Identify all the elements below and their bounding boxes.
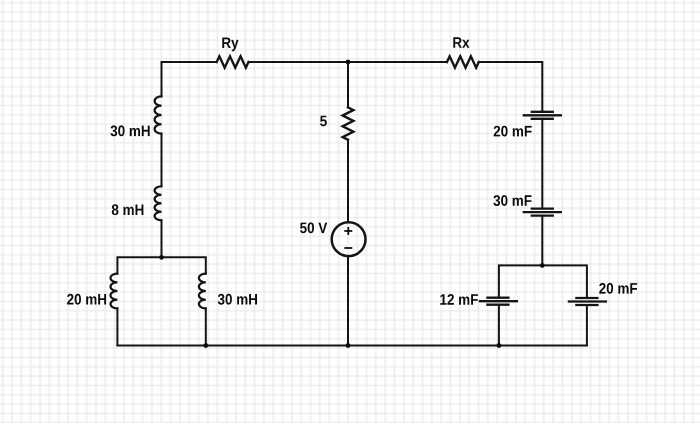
inductor L3 20 mH <box>110 274 117 309</box>
label 5 <box>320 116 327 127</box>
node left branch junction <box>159 255 164 260</box>
inductor L4 30 mH <box>199 274 206 309</box>
label 20 mF top <box>494 126 532 137</box>
wire L2 to node <box>161 220 163 257</box>
node bottom left junction <box>203 343 208 348</box>
inductor L2 8 mH <box>155 186 162 220</box>
label 8 mH <box>112 204 144 215</box>
wire between L1 and L2 <box>161 134 163 187</box>
wire right box left lower <box>498 305 500 346</box>
resistor 5 <box>343 107 354 139</box>
wire left box left lower <box>116 308 118 345</box>
wire middle lower <box>347 256 349 346</box>
label 20 mF bottom <box>599 283 637 294</box>
capacitor C3 12 mF <box>480 298 517 305</box>
label Ry <box>222 38 238 52</box>
voltage source polarity marks <box>344 227 352 248</box>
node right branch junction <box>540 263 545 268</box>
capacitor C4 20 mF <box>569 298 606 305</box>
label 30 mF <box>493 195 531 206</box>
node bottom right junction <box>497 343 502 348</box>
node bottom middle junction <box>346 343 351 348</box>
label 20 mH <box>67 294 106 305</box>
wire bottom <box>117 345 587 347</box>
voltage source V1 50 V <box>332 222 366 256</box>
wire top-right segment <box>479 62 543 112</box>
wire middle upper <box>347 62 349 107</box>
wire right branch to node <box>541 216 543 266</box>
capacitor C1 20 mF <box>524 112 561 119</box>
inductor L1 30 mH <box>155 96 162 133</box>
capacitor C2 30 mF <box>524 209 561 216</box>
label 12 mF <box>440 294 478 305</box>
label Rx <box>453 37 469 48</box>
node top middle junction <box>346 60 351 65</box>
wire right box top <box>499 265 587 298</box>
label 30 mH box <box>218 294 257 305</box>
resistor Ry <box>217 56 249 67</box>
wire middle between resistor and source <box>347 140 349 223</box>
wire right box right lower <box>586 305 588 346</box>
wire top-middle segment <box>249 61 349 63</box>
wire left box top <box>117 257 205 273</box>
wire right branch upper between caps <box>541 119 543 209</box>
wire left box right lower <box>205 308 207 345</box>
wire top segment to Rx <box>348 61 447 63</box>
label 30 mH <box>111 125 150 136</box>
resistor Rx <box>447 56 479 67</box>
label 50 V <box>300 222 327 233</box>
wire top-left segment <box>162 62 217 96</box>
